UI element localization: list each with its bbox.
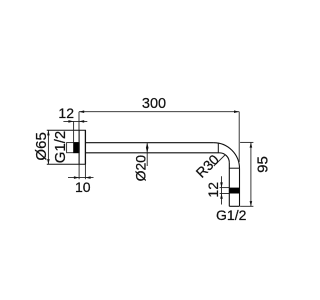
bend inner arc: [219, 153, 229, 163]
label R30 with leader: [193, 151, 226, 181]
dimension 12 (outlet thread length): [205, 176, 230, 204]
label G1/2 (outlet thread): [216, 207, 247, 223]
wall thread black fill: [73, 142, 79, 153]
svg-text:Ø65: Ø65: [33, 132, 50, 160]
dimension 12 (wall thread length): [58, 105, 87, 142]
svg-text:10: 10: [75, 179, 91, 195]
svg-text:Ø20: Ø20: [132, 155, 148, 182]
svg-text:12: 12: [58, 105, 74, 121]
wall thread stub G1/2 (outline): [67, 143, 80, 153]
bend outer arc R30: [214, 143, 240, 169]
dimension 95 (outlet height): [240, 142, 271, 206]
svg-text:12: 12: [205, 182, 221, 198]
svg-text:300: 300: [142, 96, 166, 112]
svg-text:95: 95: [254, 156, 271, 173]
svg-text:G1/2: G1/2: [216, 207, 247, 223]
bend joint line (bottom): [229, 167, 239, 169]
flange (escutcheon Ø65, side view): [47, 130, 86, 164]
label G1/2 (wall thread): [52, 131, 69, 164]
bend joint line (top): [217, 143, 219, 153]
svg-text:G1/2: G1/2: [52, 131, 69, 164]
vertical outlet pipe: [229, 163, 239, 207]
horizontal arm pipe: [85, 143, 219, 153]
dimension 300: [79, 96, 239, 162]
outlet thread band G1/2 (black): [229, 188, 239, 194]
dimension Ø20 (pipe diameter): [132, 143, 148, 182]
dimension 10 (flange depth): [68, 164, 94, 195]
dimension Ø65 (flange diameter): [33, 130, 50, 164]
